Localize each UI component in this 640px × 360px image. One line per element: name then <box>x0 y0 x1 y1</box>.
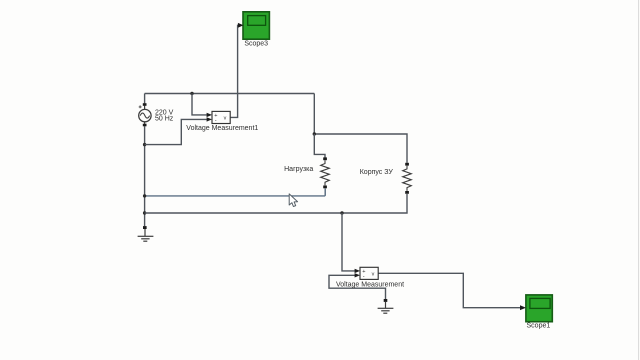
svg-text:Корпус ЗУ: Корпус ЗУ <box>360 169 394 176</box>
resistor R1 zigzag <box>321 160 330 185</box>
resistor R1 bottom port <box>323 186 327 189</box>
ground G1 symbol <box>138 229 154 241</box>
ground G1 port <box>143 226 147 229</box>
Scope1 screen <box>530 298 550 308</box>
node: junction on bottom rail feeding Voltage Measurement <box>340 211 343 214</box>
wire: AC source top to top rail corner <box>144 94 146 104</box>
resistor R1 Nagruzka: top port <box>323 157 327 160</box>
ground G2 symbol <box>378 302 394 313</box>
node: junction left vertical / bottom rail <box>143 211 146 214</box>
resistor R2 Korpus ZU: top port <box>405 163 409 166</box>
AC source top port <box>143 103 147 106</box>
AC voltage source sine <box>140 113 149 118</box>
wire: branch down to Voltage Measurement plus input <box>342 213 355 271</box>
svg-text:Нагрузка: Нагрузка <box>284 166 313 173</box>
wire: branch down to Voltage Measurement1 plus input <box>192 94 207 115</box>
wire: mid rail to Korpus resistor top <box>314 134 407 163</box>
AC source bottom stub <box>144 122 146 124</box>
scope block Scope3 <box>243 12 269 39</box>
pin arrow into VM1 minus <box>207 117 212 121</box>
svg-text:-: - <box>215 118 217 124</box>
wire: top horizontal rail <box>145 93 315 95</box>
wire: top rail down to mid rail <box>313 94 315 135</box>
svg-text:-: - <box>363 274 365 280</box>
pin arrow into VM plus <box>355 269 360 273</box>
resistor R2 bottom port <box>405 191 409 194</box>
block U2 Voltage Measurement body <box>360 267 378 279</box>
window right edge line <box>638 0 640 360</box>
wire: selected blue wire (source to Nagruzka bottom) <box>145 195 325 197</box>
wire: Voltage Measurement1 output up to Scope3 <box>230 25 239 117</box>
svg-text:v: v <box>372 272 375 278</box>
wire: bottom rail <box>145 194 407 213</box>
pin arrow into VM1 plus <box>207 113 212 117</box>
AC source top stub <box>144 106 146 110</box>
node: junction of mid rail <box>313 132 316 135</box>
svg-text:Voltage Measurement: Voltage Measurement <box>336 282 404 289</box>
node: junction left vertical / VM1 minus <box>143 143 146 146</box>
node: junction on top rail feeding Voltage Measurement1 <box>190 92 193 95</box>
svg-text:Scope3: Scope3 <box>244 40 268 47</box>
wire: VM1 minus input loop <box>145 119 207 144</box>
node: junction left vertical / blue wire <box>143 194 146 197</box>
svg-text:v: v <box>224 116 227 122</box>
Scope3 screen <box>248 16 266 26</box>
resistor R2 zigzag <box>403 166 412 191</box>
pin arrow into VM minus <box>355 273 360 277</box>
svg-text:Scope1: Scope1 <box>527 322 551 329</box>
AC source plus mark <box>139 105 142 108</box>
svg-text:50 Hz: 50 Hz <box>155 116 174 123</box>
wire: mid rail down to Nagruzka resistor top <box>314 134 325 158</box>
pin arrow into Scope3 <box>238 23 244 28</box>
mouse cursor <box>289 194 297 207</box>
pin arrow into Scope1 <box>520 305 526 310</box>
scope block Scope1 <box>526 295 552 322</box>
svg-text:Voltage Measurement1: Voltage Measurement1 <box>186 125 258 132</box>
wire: Nagruzka bottom stub <box>324 189 326 196</box>
wire: Voltage Measurement output to Scope1 <box>378 273 520 307</box>
block U1 Voltage Measurement1 body <box>212 111 230 123</box>
wire: Voltage Measurement minus to ground <box>329 275 386 299</box>
wire: left main vertical from source bottom to ground <box>144 126 146 226</box>
AC voltage source V1 (220 V 50 Hz) circle <box>139 109 151 121</box>
ground G2 port <box>384 299 388 302</box>
AC source bottom port <box>143 124 147 127</box>
